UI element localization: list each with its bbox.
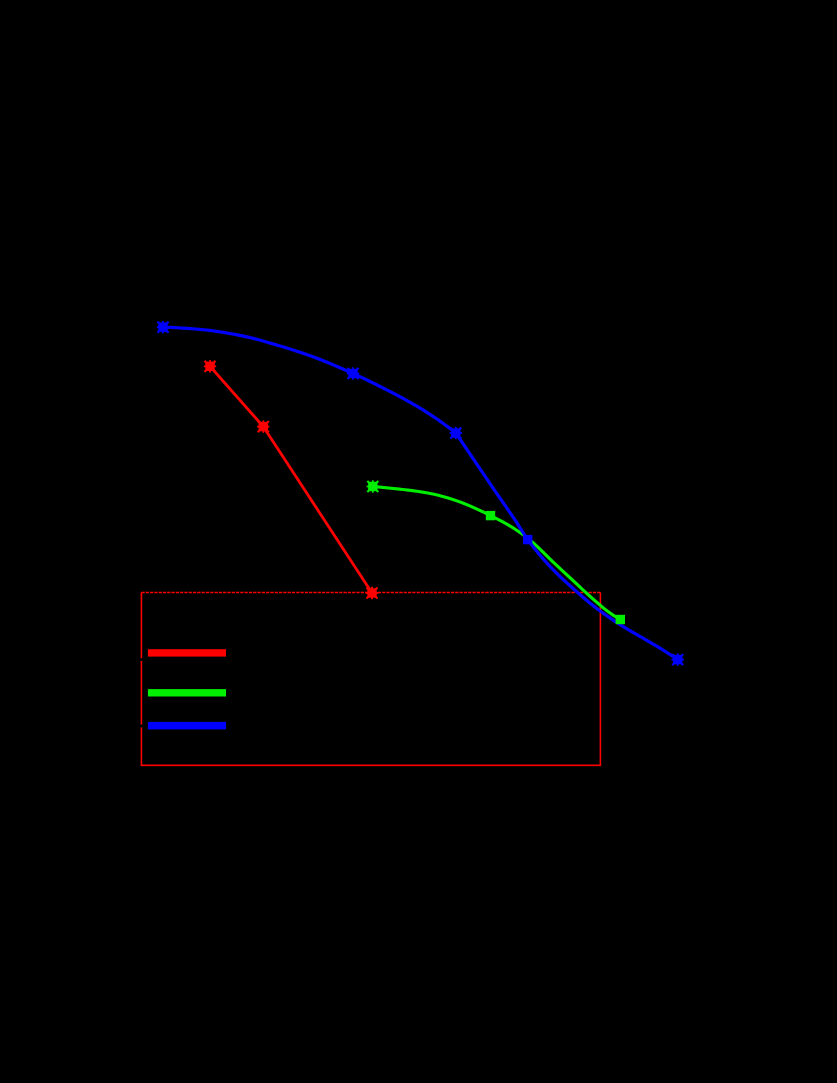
blue markers xyxy=(157,321,684,666)
key box: solid left/bottom/right borders xyxy=(141,593,600,766)
legend sample green xyxy=(148,689,226,696)
key box: dashed top border xyxy=(141,592,600,594)
legend sample red xyxy=(148,649,226,656)
tick gap lower on left border xyxy=(139,725,143,728)
red curve xyxy=(210,366,372,593)
green markers xyxy=(367,480,625,624)
blue curve part 1 xyxy=(163,327,456,433)
blue curve part 2 xyxy=(456,433,678,660)
markers xyxy=(157,321,684,666)
legend sample blue xyxy=(148,722,226,730)
red star-square markers xyxy=(204,360,378,599)
tick gap upper on left border xyxy=(139,658,143,661)
green curve xyxy=(373,487,621,620)
